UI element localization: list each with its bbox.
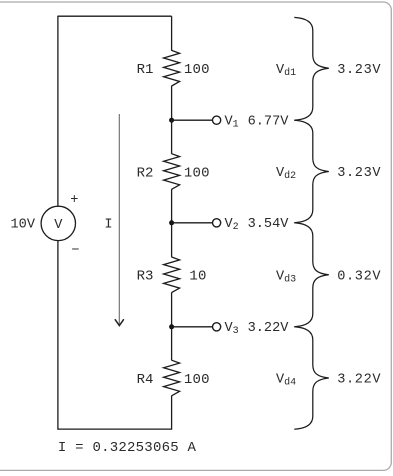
- wire: left upper (top to source): [57, 16, 59, 207]
- svg-text:0.32V: 0.32V: [337, 270, 381, 285]
- terminal V1: [213, 116, 221, 124]
- svg-text:3.23V: 3.23V: [337, 63, 381, 78]
- wire: bottom horizontal: [58, 428, 172, 430]
- svg-text:−: −: [71, 244, 79, 259]
- svg-text:+: +: [70, 193, 78, 208]
- svg-text:I: I: [104, 218, 112, 233]
- wire: node V1 stub: [172, 119, 213, 121]
- brace Vd2: [294, 120, 329, 223]
- svg-text:V: V: [54, 218, 63, 233]
- svg-text:10: 10: [189, 269, 206, 285]
- wire: top horizontal: [58, 15, 172, 17]
- svg-text:R1: R1: [137, 62, 154, 78]
- brace Vd1: [294, 17, 329, 120]
- node V2 junction: [169, 220, 174, 225]
- svg-text:R4: R4: [137, 372, 154, 388]
- svg-text:100: 100: [184, 372, 210, 388]
- svg-text:100: 100: [184, 165, 210, 181]
- wire: R3 to node V3: [171, 292, 173, 326]
- wire: node V2 to R3: [171, 223, 173, 257]
- wire: node V1 to R2: [171, 120, 173, 154]
- wire: R4 to bottom: [171, 396, 173, 430]
- svg-text:R3: R3: [137, 269, 154, 285]
- resistor R2: [164, 154, 180, 190]
- terminal V3: [213, 323, 221, 331]
- svg-text:10V: 10V: [11, 217, 36, 232]
- wire: R2 to node V2: [171, 189, 173, 223]
- voltage source V: [41, 206, 75, 240]
- terminal V2: [213, 219, 221, 227]
- svg-text:100: 100: [184, 62, 210, 78]
- current arrow I: [115, 114, 123, 326]
- node V1 junction: [169, 118, 174, 123]
- wire: left lower (source to bottom): [57, 241, 59, 430]
- wire: node V3 stub: [172, 326, 213, 328]
- brace Vd4: [294, 327, 329, 430]
- svg-text:R2: R2: [137, 165, 154, 181]
- wire: node V2 stub: [172, 222, 213, 224]
- node V3 junction: [169, 324, 174, 329]
- resistor R1: [164, 50, 180, 86]
- svg-text:3.23V: 3.23V: [337, 166, 381, 181]
- wire: node V3 to R4: [171, 327, 173, 361]
- resistor R4: [164, 360, 180, 396]
- resistor R3: [164, 257, 180, 293]
- svg-text:I = 0.32253065 A: I = 0.32253065 A: [58, 440, 197, 456]
- wire: R1 to node V1: [171, 86, 173, 120]
- brace Vd3: [294, 223, 329, 327]
- wire: right top lead: [171, 16, 173, 51]
- svg-text:3.22V: 3.22V: [337, 373, 381, 388]
